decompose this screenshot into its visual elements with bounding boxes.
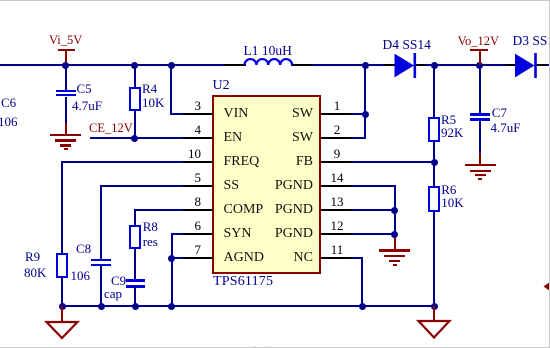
capacitor C7 plates	[470, 113, 490, 115]
wire: SS (pin 5) horizontal	[100, 185, 183, 187]
wire: top rail from D3 cathode to right edge	[536, 64, 549, 66]
wire: C5 branch upper	[65, 65, 67, 90]
wire: R6 bottom to bottom rail	[433, 212, 435, 306]
diode D3 label	[513, 34, 550, 47]
capacitor C8 value 106	[71, 269, 91, 282]
wire: AGND (pin 7) horizontal	[171, 257, 184, 259]
op-amp/IC U2 body	[212, 95, 321, 274]
resistor R6 value	[441, 196, 463, 209]
wire: C7 branch upper	[479, 65, 481, 114]
resistor R9 label	[25, 250, 40, 263]
pin name NC	[253, 251, 313, 265]
wire: FB node down to R6	[433, 161, 435, 186]
junction dot L1/SW branch	[362, 62, 369, 69]
junction dot Vi/C5 on top rail	[62, 62, 69, 69]
wire: bottom rail	[61, 305, 435, 307]
junction dot R4 top	[131, 62, 138, 69]
pin number 12	[326, 219, 348, 232]
pin name SW (2)	[253, 131, 313, 145]
capacitor C6 value 106	[0, 115, 18, 128]
resistor R4 label	[142, 82, 157, 95]
junction dot PGND pin12	[391, 231, 398, 238]
pin number 9	[326, 147, 348, 160]
resistor R6 label	[441, 183, 456, 196]
junction dot SYN/AGND	[168, 255, 175, 262]
ground (earth) below C7: bars	[465, 164, 496, 166]
capacitor C8 label	[76, 242, 91, 255]
wire: C7 bottom	[479, 121, 481, 154]
resistor R9 value	[24, 266, 46, 279]
wire: C9 bottom to bottom rail	[134, 287, 136, 307]
bottom grey separator line	[0, 347, 550, 348]
pin name FB	[253, 155, 313, 169]
right grey border line	[549, 0, 550, 348]
resistor R9 body	[56, 253, 68, 278]
diode D4 label	[383, 38, 431, 51]
resistor R4 vertical wire lower	[134, 111, 136, 138]
power port Vi_5V label	[49, 34, 82, 47]
junction dot rail/AGND	[168, 303, 175, 310]
pin name PGND (13)	[253, 203, 313, 217]
pin name VIN	[224, 107, 249, 121]
capacitor C5 plates	[56, 90, 76, 92]
resistor R8 label	[143, 220, 158, 233]
capacitor C5 value	[72, 99, 102, 112]
top grey border line	[0, 0, 550, 1]
pin number 3	[179, 99, 201, 112]
bottom caption (clipped red text)	[228, 344, 318, 348]
junction dot R5/Vo branch	[431, 62, 438, 69]
net label CE_12V	[89, 122, 133, 135]
resistor R4 value	[142, 96, 164, 109]
resistor R6 body	[428, 186, 440, 212]
IC U2 designator	[213, 79, 230, 92]
wire: PGND pin12 horizontal	[350, 233, 396, 235]
power port Vi_5V bar	[58, 49, 75, 51]
wire: SW pin2 horizontal	[350, 137, 366, 139]
pin name AGND	[224, 251, 264, 265]
power port Vi_5V stem	[65, 51, 67, 64]
resistor R5 value	[441, 126, 463, 139]
wire: R5 branch upper	[433, 65, 435, 117]
pin number 4	[179, 123, 201, 136]
wire: COMP (pin 8) horizontal	[134, 209, 183, 211]
wire: C8 bottom to bottom rail	[100, 266, 102, 307]
wire: SS vertical down to C8	[100, 185, 102, 259]
pin number 11	[326, 243, 348, 256]
wire: FREQ vertical down to R9	[61, 161, 63, 253]
resistor R5 label	[441, 113, 456, 126]
diode D3 pin stubs (black)	[505, 64, 516, 66]
ground (triangle) left: stem	[61, 306, 63, 322]
wire: SYN (pin 6) horizontal	[171, 233, 184, 235]
pin number 14	[326, 171, 348, 184]
junction dot FB/R5/R6	[431, 159, 438, 166]
pin name FREQ	[224, 155, 260, 169]
power port Vo_12V bar	[470, 49, 488, 51]
wire: top rail from D4 cathode to D3 anode	[415, 64, 516, 66]
pin number 8	[179, 195, 201, 208]
pin name SS	[224, 179, 240, 193]
capacitor C8 plates	[91, 259, 111, 261]
junction dot rail/C8	[98, 303, 105, 310]
junction dot rail/R6	[431, 303, 438, 310]
inductor L1 pin left (black)	[224, 64, 245, 66]
wire: FB (pin 9) horizontal	[350, 161, 435, 163]
chip pin stubs left (black) pins 3,4,10,5,8,6,7	[183, 113, 213, 115]
wire: SW vertical (L1 right to pins 1,2)	[364, 65, 366, 139]
junction dot rail/R9	[59, 303, 66, 310]
chip pin stubs right (black) pins 1,2,9,14,13,12,11	[321, 113, 351, 115]
capacitor C9 plates	[126, 279, 145, 281]
wire: COMP vertical down to R8	[134, 209, 136, 225]
ground (earth) below PGND: stem	[394, 238, 396, 250]
wire: VIN branch vertical	[170, 65, 172, 115]
pin number 5	[179, 171, 201, 184]
pin name SW (1)	[253, 107, 313, 121]
resistor R4 vertical wire upper	[134, 65, 136, 88]
power port Vo_12V stem	[479, 51, 481, 65]
resistor R8 value	[143, 235, 158, 248]
resistor R4 body	[129, 87, 141, 111]
wire: PGND pin13 horizontal	[350, 209, 396, 211]
pin number 2	[326, 123, 348, 136]
ground (earth) below C5: bars	[50, 134, 81, 136]
junction dot PGND pin13	[391, 207, 398, 214]
junction dot rail/C9	[132, 303, 139, 310]
wire: R5 bottom to FB node	[433, 142, 435, 163]
ground (earth) below PGND: bars	[379, 249, 410, 251]
junction dot R4 bottom / EN wire	[131, 135, 138, 142]
ground (earth) below C5: stem	[65, 123, 67, 134]
wire: R9 bottom to bottom rail	[61, 277, 63, 307]
junction dot VIN branch	[168, 62, 175, 69]
inductor L1 pin right (black)	[292, 64, 312, 66]
ground (triangle) right: stem	[433, 306, 435, 321]
resistor R8 body	[129, 225, 141, 250]
pin name COMP	[224, 203, 264, 217]
wire: SW pin1 horizontal	[350, 113, 366, 115]
diode D4 pin stubs (black)	[384, 64, 395, 66]
resistor R5 body	[428, 117, 440, 143]
wire: main top rail from left edge to D4 anode	[0, 64, 246, 66]
pin name EN	[224, 131, 243, 145]
capacitor C7 value	[491, 121, 521, 134]
pin number 7	[179, 243, 201, 256]
capacitor C6 label (component off-canvas left)	[1, 96, 16, 109]
pin number 10	[179, 147, 201, 160]
capacitor C5 label	[77, 82, 92, 95]
pin number 6	[179, 219, 201, 232]
wire: EN (pin 4) from CE_12V label to chip	[90, 137, 184, 139]
pin name PGND (12)	[253, 227, 313, 241]
capacitor C9 label	[111, 274, 126, 287]
junction dot rail/NC	[359, 303, 366, 310]
wire: R8 bottom to C9	[134, 249, 136, 280]
pin number 13	[326, 195, 348, 208]
wire: FREQ (pin 10) horizontal	[61, 161, 183, 163]
junction dot C7/Vo branch	[476, 62, 483, 69]
wire: VIN (pin 3) horizontal	[170, 113, 184, 115]
pin number 1	[326, 99, 348, 112]
wire: NC vertical to bottom rail	[361, 257, 363, 307]
wire: SYN/AGND vertical to bottom rail	[171, 233, 173, 307]
capacitor C9 value cap	[104, 287, 122, 300]
capacitor C7 label	[492, 106, 507, 119]
junction dot SW pin1	[362, 111, 369, 118]
wire: PGND vertical	[394, 185, 396, 239]
wire: PGND pin14 horizontal	[350, 185, 396, 187]
inductor L1 label	[244, 44, 292, 57]
wire: C5 branch lower	[65, 97, 67, 124]
pin name SYN	[224, 227, 252, 241]
ground (earth) below C7: stem	[479, 153, 481, 165]
IC U2 part number TPS61175	[213, 275, 273, 288]
wire: NC pin11 horizontal	[350, 257, 363, 259]
pin name PGND (14)	[253, 179, 313, 193]
power port Vo_12V label	[458, 35, 499, 48]
